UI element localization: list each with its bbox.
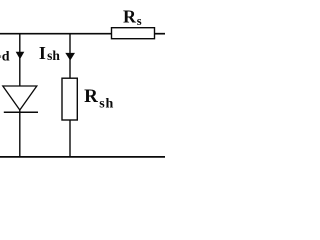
resistor Rsh: [62, 78, 77, 120]
svg-text:sh: sh: [99, 97, 114, 112]
label Rsh: [84, 86, 114, 112]
current arrow Ish: [65, 53, 75, 61]
svg-text:sh: sh: [47, 48, 60, 63]
label Id (partial "d", edge fragment of I): [0, 49, 10, 64]
label Ish: [39, 43, 60, 63]
svg-text:s: s: [137, 14, 142, 28]
wire top bus (left of Rs): [0, 33, 112, 35]
wire shunt branch upper: [69, 33, 71, 79]
svg-text:d: d: [2, 49, 10, 64]
svg-text:I: I: [39, 43, 46, 63]
svg-text:R: R: [123, 7, 137, 27]
wire diode branch lower: [19, 110, 21, 157]
svg-text:R: R: [84, 86, 98, 107]
label Rs: [123, 7, 142, 29]
wire bottom bus: [0, 156, 165, 158]
current arrow Id: [16, 52, 25, 59]
diode D cathode bar: [4, 111, 38, 113]
resistor Rs: [112, 28, 155, 39]
diode D (triangle): [3, 86, 37, 110]
wire diode branch upper: [19, 33, 21, 86]
wire top bus (right of Rs): [155, 33, 166, 35]
wire shunt branch lower: [69, 120, 71, 157]
